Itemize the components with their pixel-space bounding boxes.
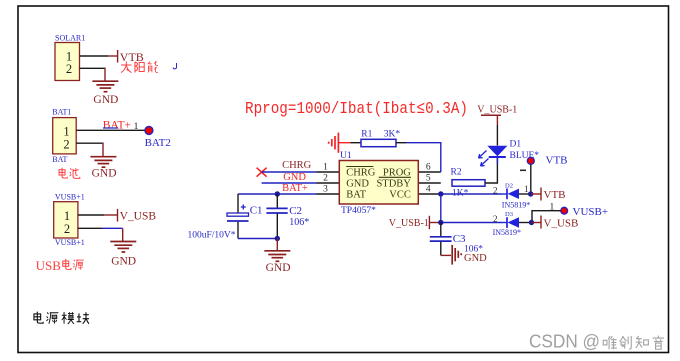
- svg-text:GND: GND: [266, 262, 291, 274]
- net label CHRG: [282, 160, 312, 171]
- svg-text:D2: D2: [505, 182, 513, 189]
- svg-text:V_USB: V_USB: [544, 217, 579, 229]
- text 电池: [59, 168, 80, 179]
- value TP4057*: [341, 206, 376, 216]
- testpoint VUSB+: [532, 203, 608, 223]
- designator VUSB+1 (top): [55, 192, 85, 201]
- svg-text:GND: GND: [346, 179, 369, 190]
- text Rprog formula: [245, 100, 468, 119]
- junction VCC: [438, 191, 443, 196]
- capacitor C2: [266, 194, 309, 239]
- svg-text:1: 1: [323, 162, 328, 172]
- svg-text:CSDN @: CSDN @: [529, 332, 600, 352]
- junction D3/VUSB: [529, 220, 541, 225]
- wire bat pin2: [76, 143, 103, 157]
- svg-text:2: 2: [63, 138, 69, 152]
- junction D2/VTB: [528, 191, 541, 196]
- svg-text:BAT: BAT: [52, 155, 67, 164]
- ground (C3, rotated): [441, 254, 451, 256]
- svg-text:1: 1: [134, 122, 139, 132]
- svg-text:5: 5: [426, 173, 431, 183]
- svg-text:CHRG: CHRG: [282, 160, 312, 171]
- svg-text:BLUE*: BLUE*: [510, 151, 540, 161]
- svg-text:BAT2: BAT2: [145, 137, 171, 149]
- svg-text:STDBY: STDBY: [376, 179, 411, 190]
- svg-text:3K*: 3K*: [384, 129, 401, 139]
- wire VCC to D2: [441, 193, 502, 195]
- svg-text:USB: USB: [36, 258, 62, 273]
- testpoint VTB: [520, 155, 568, 194]
- small J artifact: [173, 63, 177, 69]
- wire bat pin1: [76, 129, 145, 131]
- net label BAT+: [103, 119, 131, 131]
- svg-text:6: 6: [426, 162, 431, 172]
- svg-text:TP4057*: TP4057*: [341, 206, 376, 216]
- svg-text:IN5819*: IN5819*: [493, 228, 521, 237]
- wire LED anode: [496, 116, 498, 146]
- svg-text:R1: R1: [361, 129, 372, 139]
- LED D1: [479, 146, 508, 166]
- svg-text:BAT+: BAT+: [282, 183, 308, 194]
- diode D3: [493, 211, 532, 237]
- svg-text:2: 2: [493, 185, 498, 195]
- net label VTB (right): [541, 188, 566, 201]
- net label V_USB-1 (left): [389, 216, 441, 229]
- wire solar pin2: [80, 68, 106, 81]
- svg-text:GND: GND: [464, 253, 487, 264]
- wire usb pin1: [78, 214, 117, 216]
- svg-text:D1: D1: [510, 140, 522, 150]
- junction C3 row: [438, 220, 443, 225]
- svg-text:2: 2: [64, 222, 70, 236]
- chip pins left: [317, 172, 340, 194]
- ground GND (usb): [110, 242, 136, 253]
- svg-text:100uF/10V*: 100uF/10V*: [188, 231, 236, 241]
- wire to R1: [351, 142, 362, 144]
- capacitor C1: [188, 194, 263, 241]
- svg-text:GND: GND: [93, 94, 118, 106]
- svg-text:R2: R2: [451, 167, 462, 177]
- svg-text:106*: 106*: [289, 217, 309, 228]
- svg-text:CHRG: CHRG: [346, 168, 376, 179]
- svg-text:GND: GND: [111, 255, 136, 267]
- net label BAT+ (pin3): [282, 183, 308, 194]
- no-ERC cross: [257, 168, 267, 177]
- text USB电源: [36, 258, 62, 273]
- svg-text:1: 1: [63, 125, 69, 139]
- svg-text:4: 4: [426, 184, 431, 194]
- pin number 1 (BAT2): [134, 122, 139, 132]
- junction BAT+/C2: [275, 191, 280, 196]
- svg-text:2: 2: [493, 214, 498, 224]
- svg-text:BAT1: BAT1: [52, 108, 71, 117]
- svg-text:D3: D3: [505, 211, 513, 218]
- diode D2: [493, 182, 531, 209]
- resistor R2: [451, 167, 486, 198]
- svg-text:3: 3: [323, 184, 328, 194]
- vertical VCC to C3: [440, 194, 442, 223]
- resistor R1: [361, 129, 400, 146]
- wire solar pin1: [80, 55, 118, 57]
- wire R2 right to LED: [485, 158, 497, 183]
- ground GND (C2): [276, 239, 278, 251]
- designator VUSB+1 (bottom): [55, 238, 85, 247]
- title 电源模块: [34, 312, 89, 324]
- op chip body U1: [339, 161, 418, 205]
- designator SOLAR1: [55, 34, 85, 43]
- svg-text:IN5819*: IN5819*: [502, 201, 530, 210]
- svg-text:VUSB+1: VUSB+1: [55, 192, 85, 201]
- svg-text:VCC: VCC: [389, 190, 411, 201]
- wire CHRG: [262, 171, 317, 173]
- wire usb pin2: [78, 228, 123, 241]
- net label V_USB (right): [541, 216, 578, 230]
- net label GND (pin2): [283, 172, 306, 183]
- svg-text:C3: C3: [453, 233, 466, 245]
- connector VUSB: [54, 202, 78, 238]
- text 太阳能: [121, 61, 158, 72]
- ground GND (bat): [90, 157, 116, 168]
- pin numbers 1 2 3: [323, 162, 328, 194]
- pin numbers 6 5 4: [426, 162, 431, 194]
- wire bottom rail: [238, 238, 277, 240]
- junction bottom/C2: [275, 236, 280, 241]
- chip pins right: [418, 172, 441, 194]
- wire R1 to pin6: [396, 143, 441, 172]
- svg-text:V_USB-1: V_USB-1: [477, 105, 517, 116]
- text BAT: [52, 155, 67, 164]
- power ground symbol (red, rotated left): [329, 133, 351, 153]
- svg-text:VUSB+1: VUSB+1: [55, 238, 85, 247]
- connector BAT1: [53, 118, 76, 154]
- testpoint BAT2: [145, 126, 171, 149]
- svg-text:2: 2: [323, 173, 328, 183]
- svg-text:V_USB-1: V_USB-1: [389, 218, 429, 229]
- svg-text:U1: U1: [340, 151, 352, 161]
- designator U1: [340, 151, 352, 161]
- designator BAT1: [52, 108, 71, 117]
- svg-text:BAT+: BAT+: [103, 119, 131, 131]
- svg-text:VTB: VTB: [546, 155, 568, 167]
- wire GND (pin2): [262, 182, 317, 184]
- svg-text:2: 2: [66, 62, 72, 76]
- svg-text:C2: C2: [289, 205, 302, 217]
- svg-text:VTB: VTB: [544, 189, 566, 201]
- svg-text:GND: GND: [283, 172, 306, 183]
- connector SOLAR1: [55, 43, 80, 81]
- svg-text:Rprog=1000/Ibat(Ibat≤0.3A): Rprog=1000/Ibat(Ibat≤0.3A): [245, 100, 468, 119]
- wire V_USB-1 row: [441, 222, 502, 224]
- capacitor C3: [430, 223, 483, 256]
- wire BAT+ rail: [238, 193, 317, 195]
- svg-text:VTB: VTB: [120, 50, 144, 64]
- svg-text:BAT: BAT: [346, 190, 366, 201]
- svg-text:C1: C1: [250, 205, 263, 217]
- svg-text:SOLAR1: SOLAR1: [55, 34, 85, 43]
- watermark CSDN: [529, 332, 600, 352]
- svg-text:GND: GND: [92, 167, 117, 179]
- ground GND (solar): [92, 81, 118, 92]
- svg-text:V_USB: V_USB: [120, 211, 157, 223]
- svg-text:1: 1: [64, 209, 70, 223]
- svg-text:1: 1: [524, 184, 529, 194]
- designator D1 / BLUE*: [510, 140, 540, 162]
- net label V_USB-1 (LED top): [477, 105, 517, 116]
- net label VTB (solar): [118, 50, 144, 64]
- net label V_USB (usb conn): [118, 209, 157, 223]
